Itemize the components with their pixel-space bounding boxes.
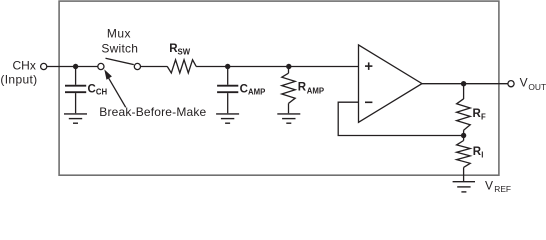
svg-text:SW: SW [178, 48, 191, 57]
svg-text:V: V [485, 178, 493, 192]
svg-text:Break-Before-Make: Break-Before-Make [99, 105, 206, 119]
svg-text:AMP: AMP [248, 88, 265, 97]
svg-text:REF: REF [494, 184, 511, 194]
svg-text:(Input): (Input) [0, 72, 37, 86]
svg-text:AMP: AMP [307, 86, 324, 95]
svg-text:OUT: OUT [528, 82, 546, 92]
svg-text:C: C [240, 83, 248, 95]
svg-text:CH: CH [96, 88, 108, 97]
svg-text:CHx: CHx [13, 59, 36, 73]
svg-text:C: C [88, 83, 96, 95]
svg-text:R: R [298, 82, 307, 94]
svg-text:I: I [481, 151, 483, 160]
svg-text:Mux: Mux [107, 27, 131, 41]
svg-text:Switch: Switch [101, 41, 138, 55]
svg-text:V: V [520, 76, 528, 90]
svg-text:F: F [481, 112, 486, 121]
